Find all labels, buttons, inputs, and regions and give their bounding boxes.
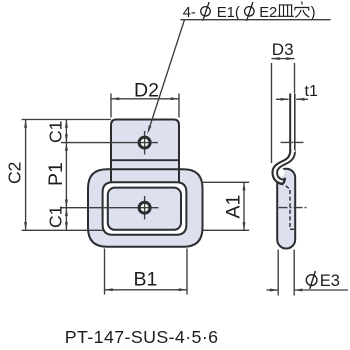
dimension t1 (276, 98, 308, 101)
svg-text:B1: B1 (134, 269, 158, 291)
curl knuckle inner line (277, 152, 295, 179)
svg-text:D3: D3 (272, 40, 294, 59)
hole 2 centerlines (61, 196, 159, 220)
dimension C2 (22, 120, 111, 231)
bend line across tab (111, 159, 179, 161)
hole 2 centerline (side view) (279, 207, 308, 209)
pressed plate inside bail opening (108, 188, 181, 230)
leader label 4-phiE1(phiE2 countersink) (183, 2, 316, 21)
svg-text:E2: E2 (259, 5, 277, 21)
kanji sara (dish/countersink) (277, 5, 294, 16)
dimension phiE3 (267, 250, 349, 296)
svg-text:4-: 4- (183, 5, 196, 21)
hole 1 ring (139, 137, 150, 148)
label phiE3 (306, 271, 340, 290)
hole 2 ring (139, 202, 150, 213)
label C2 (5, 162, 25, 184)
leader line to hole 1 (147, 20, 330, 135)
dimension C1 (top) (65, 120, 68, 143)
dimension B1 (105, 249, 188, 295)
svg-text:E1(: E1( (217, 5, 240, 21)
hole 2 (countersunk) (139, 202, 150, 213)
bail ring (front view, outer rounded rect minus opening) (88, 169, 203, 247)
svg-text:E3: E3 (320, 272, 340, 290)
curl knuckle outer line (273, 150, 291, 183)
part number text (65, 327, 219, 347)
kanji ana (hole) (295, 2, 309, 18)
dimension D3 (272, 57, 295, 163)
label B1 (134, 269, 158, 291)
hole 1 (countersunk) (139, 137, 150, 148)
label A1 (223, 195, 245, 219)
hidden plate edges behind bail (dashed) (280, 184, 296, 229)
svg-text:C1: C1 (46, 121, 66, 143)
hole 1 centerlines (61, 131, 158, 155)
label t1 (305, 83, 318, 100)
curl end cap (284, 179, 285, 183)
dimension A1 (201, 182, 249, 230)
svg-text:t1: t1 (305, 83, 318, 100)
bail capsule (side view) (277, 169, 295, 249)
label D3 (272, 40, 294, 59)
tab (upper mounting plate, front view) (111, 120, 179, 184)
plate (side view) back face / D3 extension (294, 94, 296, 153)
svg-text:C1: C1 (46, 206, 66, 228)
svg-text:A1: A1 (223, 195, 245, 219)
svg-text:C2: C2 (5, 162, 25, 184)
dimension D2 (111, 94, 179, 118)
svg-text:): ) (311, 5, 316, 21)
plate (side view) front face (289, 94, 291, 151)
dimension C1 (bottom) (65, 208, 68, 231)
curl loop window (275, 168, 284, 177)
dimension P1 (65, 143, 68, 208)
hole 1 centerline (side view) (281, 141, 304, 143)
curl knuckle band (273, 150, 295, 183)
label C1 bottom (46, 206, 66, 228)
label C1 top (46, 121, 66, 143)
label P1 (45, 162, 67, 186)
svg-text:P1: P1 (45, 162, 67, 186)
svg-text:PT-147-SUS-4·5·6: PT-147-SUS-4·5·6 (65, 327, 219, 347)
label D2 (134, 80, 159, 102)
svg-text:D2: D2 (134, 80, 159, 102)
tab side edges visible across bail ring band (111, 168, 179, 183)
